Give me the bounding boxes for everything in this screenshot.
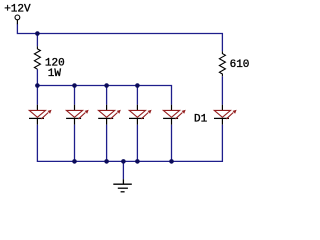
svg-text:610: 610 [230, 59, 250, 71]
svg-text:1W: 1W [48, 68, 62, 80]
svg-text:+12V: +12V [4, 3, 31, 15]
svg-text:D1: D1 [194, 113, 208, 125]
